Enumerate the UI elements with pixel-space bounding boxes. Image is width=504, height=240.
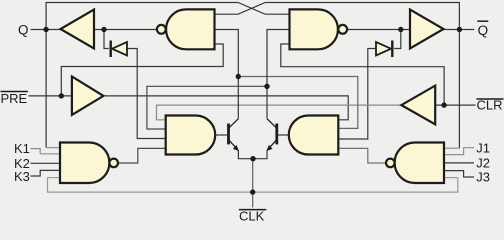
label CLK [239, 209, 266, 224]
svg-text:J3: J3 [476, 170, 490, 185]
junction master node right [264, 84, 269, 89]
buffer U4 (PRE, points right) [72, 77, 104, 115]
wire Qbar buffer output to label [444, 29, 475, 31]
wire K1 label stub with jog [31, 149, 61, 154]
wire CLK bottom distribution run [48, 178, 458, 193]
wire PRE buffer output to right AND top input [103, 96, 348, 120]
nand U2 (slave latch left, points left) [157, 9, 215, 49]
wire Q-feedback top left run [46, 3, 238, 148]
wire J1 label stub with jog [444, 148, 474, 155]
label CLR [476, 98, 503, 113]
label Qbar [477, 21, 488, 38]
wire right AND output to transistor Q2 base [278, 134, 289, 136]
and U8 (master right) [289, 116, 339, 155]
buffer U1 (Q output, points left) [61, 10, 95, 49]
svg-text:Q: Q [18, 22, 29, 37]
wire CLR up-and-over to right NAND third input [281, 44, 444, 105]
wire CLK vertical from emitters to label [252, 159, 254, 208]
wire CLK into K gate fifth input [48, 177, 61, 179]
junction master node left [236, 74, 241, 79]
svg-text:CLK: CLK [239, 209, 265, 224]
wire Qbar-feedback tail into J gate [444, 147, 459, 149]
junction Qbar buffer input / diode node [398, 27, 403, 32]
wire CLK into J gate fifth input [444, 177, 458, 179]
wire right NAND second input to master node [267, 30, 290, 119]
wire Qbar-feedback top right run [265, 3, 459, 149]
wire crossover diagonal Qbar-feedback to left NAND input [215, 3, 266, 15]
wire left diode anode to vertical drop [127, 49, 166, 139]
wire PRE up-and-over to left NAND third input [61, 44, 223, 96]
wire CLR label to junction [435, 104, 475, 106]
svg-text:J2: J2 [476, 156, 490, 171]
junction CLR node [441, 102, 446, 107]
wire left AND output to transistor Q1 base [215, 134, 227, 136]
diode D2 (right) [376, 41, 392, 58]
wire K NAND output up to left AND fourth input [118, 148, 166, 163]
wire node 104 down to left diode cathode [104, 30, 109, 49]
wire master node across to right AND second input [238, 77, 357, 129]
wire master node across to left AND second input [147, 86, 267, 129]
transistor Q1 (left, npn) [229, 119, 239, 151]
wire left NAND second input to master node [215, 30, 239, 119]
wire right diode anode to vertical drop [338, 49, 376, 140]
svg-text:Q: Q [478, 23, 489, 38]
svg-text:J1: J1 [476, 140, 490, 155]
wire CLR buffer output to left AND top input [157, 105, 402, 120]
junction Qbar node at feedback [457, 27, 462, 32]
svg-text:K3: K3 [14, 169, 30, 184]
diode D1 (left) [111, 41, 127, 58]
wire PRE label to junction [29, 95, 72, 97]
wire emitter bus right [253, 151, 267, 159]
wire Q output node [31, 29, 61, 31]
nand U9 (K input gate) [60, 143, 118, 184]
junction PRE node [59, 93, 64, 98]
wire Qbar output node [347, 29, 410, 31]
label PRE [1, 91, 29, 106]
buffer U6 (Qbar output, points right) [410, 10, 444, 49]
and U7 (master left) [166, 116, 216, 155]
wire J3 label stub with jog [444, 171, 474, 177]
wire Q buffer input from NAND output bubble [94, 29, 157, 31]
svg-text:PRE: PRE [1, 91, 28, 106]
svg-text:K1: K1 [14, 141, 30, 156]
wire emitter bus left [238, 151, 253, 159]
buffer U5 (CLR, points left) [401, 86, 435, 125]
nand U10 (J input gate) [386, 143, 444, 184]
wire J NAND output up to right AND fourth input [338, 148, 386, 163]
junction CLK bottom [250, 189, 255, 194]
wire crossover diagonal Q-feedback to right NAND input [238, 3, 289, 15]
wire Q-feedback tail into K gate [46, 147, 60, 149]
junction Q node at feedback [43, 27, 48, 32]
junction Q buffer input / diode node [101, 27, 106, 32]
wire J2 straight [444, 162, 474, 164]
junction emitter bus [250, 156, 255, 161]
wire node 400.8 down to right diode cathode [394, 30, 401, 49]
wire K3 label stub with jog [31, 170, 61, 176]
wire K2 straight [31, 162, 61, 164]
transistor Q2 (right, npn) [267, 119, 277, 151]
nand U3 (slave latch right, points right) [290, 9, 348, 49]
